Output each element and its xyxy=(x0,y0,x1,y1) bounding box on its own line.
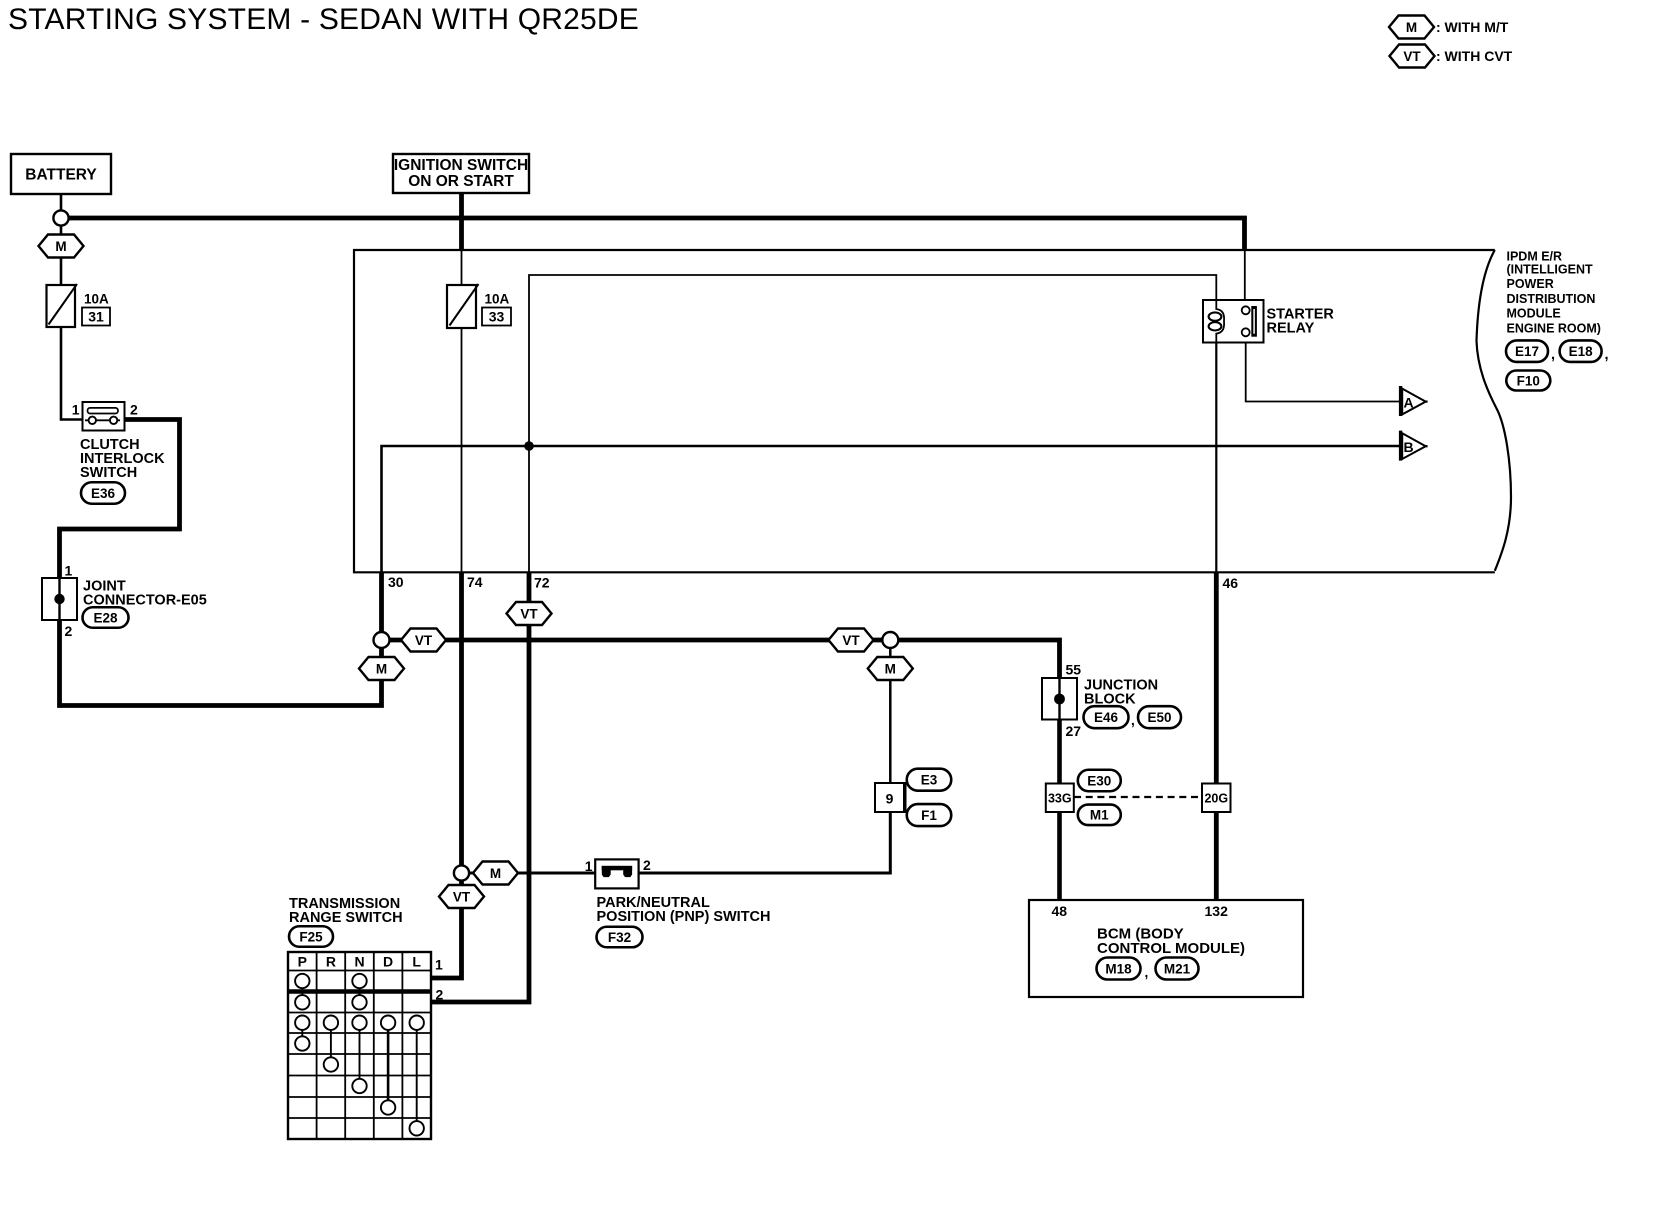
svg-text:M21: M21 xyxy=(1164,961,1191,976)
ignition switch xyxy=(393,154,529,193)
svg-text:N: N xyxy=(354,954,364,970)
wire M terminal 9 riser xyxy=(889,647,892,783)
wire fuse 33 feed xyxy=(461,250,463,285)
M/T connector PNP branch xyxy=(473,862,518,885)
svg-text:MODULE: MODULE xyxy=(1507,307,1561,321)
legend M symbol xyxy=(1389,16,1509,39)
comma xyxy=(1605,347,1609,363)
wire pin 72 drop to range switch pin 2 xyxy=(432,572,530,1002)
svg-text:1: 1 xyxy=(72,402,80,418)
wire battery drop xyxy=(60,194,63,211)
svg-text:CONTROL MODULE): CONTROL MODULE) xyxy=(1097,940,1245,957)
wire clutch switch pin 2 to joint connector pin 1 xyxy=(60,420,180,579)
junction node xyxy=(524,441,534,451)
connector M18 xyxy=(1097,958,1141,980)
svg-text:: WITH M/T: : WITH M/T xyxy=(1436,19,1509,35)
svg-text:E46: E46 xyxy=(1094,710,1119,725)
range switch contacts row3 xyxy=(295,1016,424,1030)
svg-text:48: 48 xyxy=(1052,903,1068,919)
IPDM E/R label xyxy=(1507,250,1601,336)
BCM pin 48 label xyxy=(1052,903,1068,919)
arrow A xyxy=(1401,386,1428,416)
svg-text:L: L xyxy=(412,954,421,970)
svg-text:F1: F1 xyxy=(921,808,937,823)
svg-text:1: 1 xyxy=(65,563,73,579)
M/T connector left bus xyxy=(359,657,404,680)
range switch stem L xyxy=(416,1030,418,1122)
svg-text:33G: 33G xyxy=(1048,791,1072,805)
wire M branch to PNP switch pin 1 xyxy=(468,872,596,875)
svg-text:SWITCH: SWITCH xyxy=(80,465,137,481)
svg-text:31: 31 xyxy=(88,309,104,325)
BCM pin 132 label xyxy=(1205,903,1229,919)
node M bus left xyxy=(374,632,390,648)
wire pin 30 to node B xyxy=(382,446,1400,572)
svg-text:46: 46 xyxy=(1223,575,1239,591)
pin 30 label xyxy=(388,574,404,590)
svg-text:M: M xyxy=(1406,20,1417,35)
wire relay coil to pin 46 xyxy=(1215,342,1217,572)
starter relay U1 xyxy=(1203,300,1264,343)
node battery junction xyxy=(53,210,68,225)
svg-text:M: M xyxy=(376,661,387,676)
connector F32 xyxy=(597,927,643,948)
connector E36 xyxy=(81,482,125,504)
range switch contact L xyxy=(410,1121,424,1135)
title text xyxy=(8,3,639,36)
svg-text:E17: E17 xyxy=(1515,344,1539,359)
joint connector label xyxy=(83,579,207,609)
range switch contact P xyxy=(295,1036,309,1050)
range switch pin 1 label xyxy=(435,957,443,973)
wire PNP switch pin 2 to terminal 9 xyxy=(638,812,891,873)
svg-text:55: 55 xyxy=(1066,662,1082,678)
svg-text:10A: 10A xyxy=(485,292,510,307)
wire main battery bus xyxy=(69,218,1245,250)
M/T connector symbol xyxy=(39,235,84,258)
pin 46 label xyxy=(1223,575,1239,591)
junction block pin 27 label xyxy=(1066,723,1082,739)
battery B1 xyxy=(11,154,111,194)
svg-text:,: , xyxy=(1131,713,1135,728)
M/T connector right bus xyxy=(868,657,913,680)
svg-text:33: 33 xyxy=(489,309,505,325)
svg-text:F32: F32 xyxy=(608,930,631,945)
range switch stem N xyxy=(359,1030,361,1079)
wire pin 72 to relay coil xyxy=(529,275,1216,572)
dashed link 33G-20G xyxy=(1074,796,1202,798)
svg-text:E28: E28 xyxy=(93,610,118,625)
PNP switch label xyxy=(597,895,771,925)
svg-text:2: 2 xyxy=(436,987,444,1003)
svg-text:2: 2 xyxy=(65,623,73,639)
terminal 9 box xyxy=(875,783,906,813)
svg-text:POSITION (PNP) SWITCH: POSITION (PNP) SWITCH xyxy=(597,909,771,925)
node PNP branch xyxy=(454,865,469,880)
svg-text:(INTELLIGENT: (INTELLIGENT xyxy=(1507,263,1593,277)
svg-text:IGNITION SWITCH: IGNITION SWITCH xyxy=(394,157,528,174)
svg-text:M: M xyxy=(885,661,896,676)
PNP pin 1 label xyxy=(585,858,593,874)
svg-text:2: 2 xyxy=(130,402,138,418)
svg-text:A: A xyxy=(1404,395,1414,411)
svg-text:9: 9 xyxy=(886,791,894,807)
VT connector right bus xyxy=(829,629,874,652)
junction block label xyxy=(1084,678,1158,708)
connector M21 xyxy=(1156,958,1199,980)
joint connector E05 xyxy=(42,578,77,620)
svg-text:ENGINE ROOM): ENGINE ROOM) xyxy=(1507,322,1601,336)
svg-text:,: , xyxy=(1605,347,1609,363)
svg-text:27: 27 xyxy=(1066,723,1082,739)
terminal 20G box xyxy=(1202,784,1231,813)
svg-text:D: D xyxy=(383,954,393,970)
svg-text:F25: F25 xyxy=(299,929,323,944)
wire pin 46 drop xyxy=(1214,572,1219,900)
svg-text:M: M xyxy=(490,866,501,881)
range switch table grid xyxy=(288,952,431,1139)
svg-text:RELAY: RELAY xyxy=(1267,321,1315,337)
pin 72 label xyxy=(534,575,550,591)
wire bus to relay contact xyxy=(1244,250,1246,306)
comma xyxy=(1131,713,1135,728)
VT connector on pin 72 xyxy=(507,602,552,625)
starter relay label xyxy=(1267,307,1335,337)
range switch contact N xyxy=(352,1079,366,1093)
range switch pin 2 label xyxy=(436,987,444,1003)
connector M1 xyxy=(1078,805,1121,826)
wire fuse 31 to clutch switch pin 1 xyxy=(61,326,83,420)
wire pin 74 drop xyxy=(459,572,464,867)
IPDM E/R box outline xyxy=(354,250,1511,572)
wire CVT bus xyxy=(388,638,884,643)
svg-text:STARTING SYSTEM - SEDAN WITH Q: STARTING SYSTEM - SEDAN WITH QR25DE xyxy=(8,3,639,36)
svg-text:E3: E3 xyxy=(921,773,938,788)
svg-text:VT: VT xyxy=(453,889,471,904)
svg-text:BATTERY: BATTERY xyxy=(25,167,97,184)
connector E30 xyxy=(1078,770,1121,792)
joint connector pin 2 label xyxy=(65,623,73,639)
legend VT symbol xyxy=(1390,45,1513,68)
VT connector left bus xyxy=(401,629,446,652)
clutch interlock switch S1 xyxy=(83,402,125,431)
svg-text:F10: F10 xyxy=(1517,373,1540,388)
svg-text:,: , xyxy=(1145,965,1149,980)
wire ignition drop xyxy=(459,193,464,250)
connector F1 xyxy=(907,804,952,826)
fuse 33 10A xyxy=(447,284,511,328)
BCM label xyxy=(1097,926,1245,958)
wire junction block to 33G xyxy=(1057,719,1062,784)
connector E46 xyxy=(1084,706,1129,728)
range switch column headers xyxy=(298,954,422,970)
svg-text:M18: M18 xyxy=(1105,961,1132,976)
svg-text:1: 1 xyxy=(585,858,593,874)
range switch contact D xyxy=(381,1100,395,1114)
comma xyxy=(1551,347,1555,363)
svg-text:2: 2 xyxy=(643,857,651,873)
svg-text:72: 72 xyxy=(534,575,550,591)
wire relay contact to arrow A xyxy=(1246,343,1400,402)
connector E28 xyxy=(83,607,129,628)
svg-text:R: R xyxy=(326,954,336,970)
wire fuse 33 to pin 74 xyxy=(461,328,463,572)
clutch interlock switch label xyxy=(80,437,165,481)
svg-text:VT: VT xyxy=(520,606,538,621)
comma xyxy=(1145,965,1149,980)
joint connector pin 1 label xyxy=(65,563,73,579)
range switch stem P xyxy=(301,1030,303,1037)
range switch stem R xyxy=(330,1030,332,1058)
svg-text:IPDM E/R: IPDM E/R xyxy=(1507,250,1563,264)
svg-text:VT: VT xyxy=(842,633,860,648)
svg-text:P: P xyxy=(298,954,307,970)
svg-text:VT: VT xyxy=(1403,49,1421,64)
wire 33G to BCM pin 48 xyxy=(1057,811,1062,900)
svg-text:1: 1 xyxy=(435,957,443,973)
BCM box xyxy=(1029,900,1303,997)
clutch switch pin 1 label xyxy=(72,402,80,418)
range switch contacts row2 xyxy=(295,995,367,1009)
svg-text:E36: E36 xyxy=(91,486,116,501)
svg-text:E50: E50 xyxy=(1147,710,1171,725)
svg-text:RANGE SWITCH: RANGE SWITCH xyxy=(289,910,403,926)
svg-text:10A: 10A xyxy=(84,292,109,307)
wire joint connector pin 2 to M bus xyxy=(60,620,382,706)
connector E3 xyxy=(907,769,952,791)
svg-text:: WITH CVT: : WITH CVT xyxy=(1436,48,1513,64)
range switch contact R xyxy=(324,1057,338,1071)
connector F25 xyxy=(289,926,333,947)
connector E50 xyxy=(1138,706,1181,728)
wire CVT bus to junction block xyxy=(897,640,1060,679)
transmission range switch label xyxy=(289,896,403,926)
wire battery to fuse 31 xyxy=(60,225,63,285)
svg-text:E30: E30 xyxy=(1087,773,1111,788)
wire pin 30 drop xyxy=(379,572,384,634)
svg-text:DISTRIBUTION: DISTRIBUTION xyxy=(1507,292,1596,306)
wire range switch pin 1 riser xyxy=(432,880,462,978)
fuse 31 10A xyxy=(47,284,111,327)
junction block pin 55 label xyxy=(1066,662,1082,678)
VT connector below node xyxy=(439,885,484,908)
svg-text:B: B xyxy=(1404,439,1414,455)
svg-text:E18: E18 xyxy=(1569,344,1594,359)
range switch stem D xyxy=(387,1030,390,1101)
clutch switch pin 2 label xyxy=(130,402,138,418)
PNP pin 2 label xyxy=(643,857,651,873)
svg-text:,: , xyxy=(1551,347,1555,363)
svg-text:74: 74 xyxy=(467,574,483,590)
svg-text:132: 132 xyxy=(1205,903,1229,919)
node M bus right xyxy=(882,632,898,648)
park/neutral position switch xyxy=(595,859,638,888)
connector E17 xyxy=(1506,340,1548,362)
svg-text:POWER: POWER xyxy=(1507,277,1554,291)
pin 74 label xyxy=(467,574,483,590)
svg-text:M1: M1 xyxy=(1090,808,1109,823)
junction block xyxy=(1042,678,1077,720)
svg-text:ON OR START: ON OR START xyxy=(408,173,514,190)
svg-text:30: 30 xyxy=(388,574,404,590)
svg-text:VT: VT xyxy=(415,633,433,648)
svg-text:20G: 20G xyxy=(1204,791,1228,805)
range switch bridge bar xyxy=(288,989,431,993)
range switch contacts row1 xyxy=(295,974,367,996)
connector E18 xyxy=(1560,340,1602,362)
svg-text:M: M xyxy=(55,239,66,254)
connector F10 xyxy=(1506,371,1550,391)
arrow B xyxy=(1401,431,1428,461)
terminal 33G box xyxy=(1046,784,1074,813)
